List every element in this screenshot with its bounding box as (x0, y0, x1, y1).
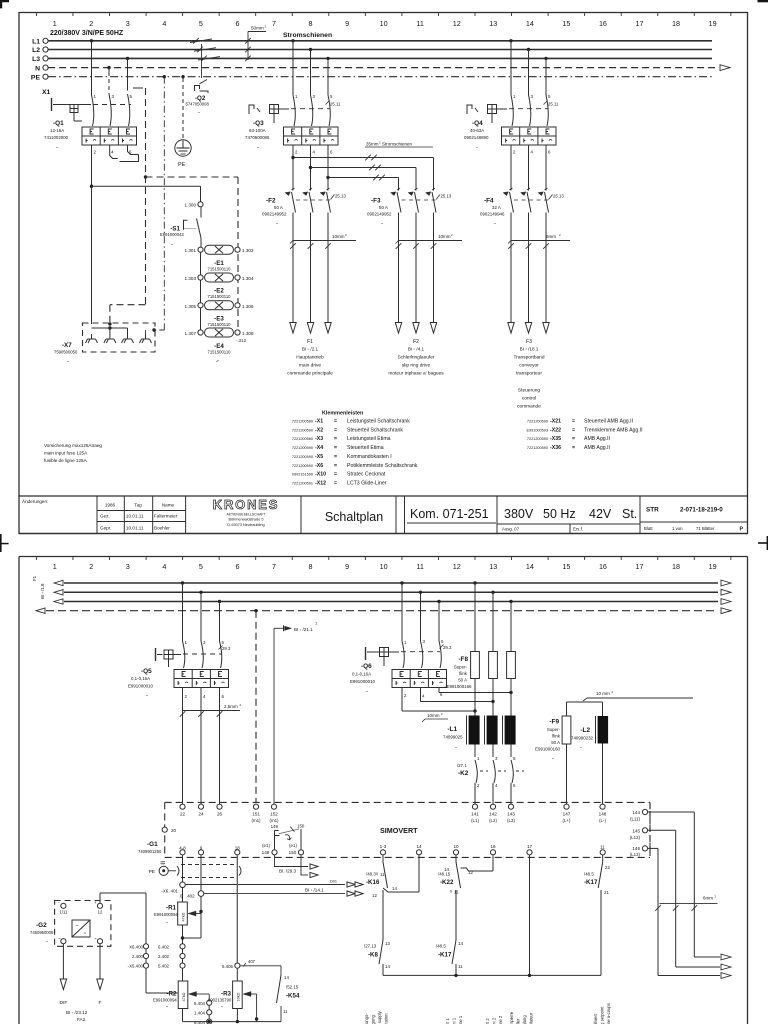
svg-text:(L1): (L1) (471, 818, 479, 823)
G1 top terminals 22 24 26 (180, 804, 223, 816)
svg-text:KRONES: KRONES (213, 497, 279, 512)
svg-text:50mm: 50mm (251, 26, 264, 31)
svg-text:Steuerteil AMB Agg.II: Steuerteil AMB Agg.II (584, 419, 633, 425)
svg-text:148: 148 (599, 812, 607, 817)
svg-text:/52.15: /52.15 (286, 985, 299, 990)
svg-text:Super-: Super- (547, 727, 561, 732)
svg-text:Steuerteil Schaltschrank: Steuerteil Schaltschrank (347, 427, 403, 433)
breaker Q1 (44, 98, 137, 151)
svg-text:-: - (494, 221, 496, 227)
svg-text:Kom. 071-251: Kom. 071-251 (410, 507, 489, 521)
svg-text:(L-): (L-) (599, 818, 606, 823)
svg-text:14: 14 (526, 19, 534, 28)
svg-text:Gepr.: Gepr. (100, 526, 111, 531)
svg-text:-: - (580, 745, 582, 751)
svg-text:147: 147 (563, 812, 571, 817)
bottom rail R2 R3 K54 (183, 1017, 282, 1023)
rail N wire (43, 65, 730, 71)
bus line 4 dashed control (36, 608, 731, 614)
svg-text:BI. /29.3: BI. /29.3 (279, 869, 297, 874)
terminals 151 152 m1 (251, 804, 279, 823)
svg-text:7221200590: 7221200590 (527, 420, 548, 424)
svg-text:sollwert 1: sollwert 1 (445, 1018, 450, 1024)
svg-text:Boehler: Boehler (154, 526, 170, 531)
svg-text:-: - (198, 110, 200, 116)
svg-text:12: 12 (453, 562, 461, 571)
svg-text:29.3: 29.3 (443, 645, 452, 650)
svg-text:/27.1: /27.1 (457, 763, 467, 768)
fuse F8 (444, 581, 515, 715)
svg-text:-: - (171, 242, 173, 248)
svg-text:consigne 1: consigne 1 (458, 1015, 463, 1024)
svg-text:-R2: -R2 (167, 991, 178, 998)
cable 6mm2 marker output (655, 895, 717, 911)
svg-text:50 A: 50 A (379, 205, 388, 210)
svg-text:(L13): (L13) (630, 852, 641, 857)
svg-text:(L12): (L12) (630, 835, 641, 840)
G2 wire to terminal chain (100, 893, 178, 993)
svg-text:3: 3 (126, 19, 130, 28)
svg-text:740990232: 740990232 (571, 736, 594, 741)
svg-text:STR: STR (646, 507, 659, 514)
terminals 147 148 (563, 804, 607, 823)
svg-text:/27.13: /27.13 (364, 944, 377, 949)
svg-text:12-16A: 12-16A (50, 128, 64, 133)
svg-text:149: 149 (271, 824, 279, 829)
svg-text:0902135790: 0902135790 (208, 998, 232, 1003)
svg-text:1.307: 1.307 (185, 331, 197, 336)
svg-text:E991000043: E991000043 (160, 232, 184, 237)
Q6 output links to F8 (402, 688, 513, 713)
svg-text:PE: PE (31, 74, 41, 81)
svg-text:63-100A: 63-100A (249, 128, 266, 133)
svg-text:74099025: 74099025 (443, 735, 463, 740)
Q6 pole wires (400, 581, 452, 668)
svg-text:26: 26 (217, 812, 223, 817)
svg-text:-K17: -K17 (584, 879, 598, 886)
bus line 3 bottom page (54, 599, 731, 605)
dashed drop from N via x145 to X7 (108, 88, 145, 326)
svg-text:DIF: DIF (60, 1000, 68, 1006)
svg-text:Schaltplan: Schaltplan (325, 510, 383, 524)
svg-text:AMB Agg.II: AMB Agg.II (584, 445, 610, 451)
switch 149 150 inside G1 (271, 824, 305, 850)
choke L1 (443, 716, 516, 752)
svg-text:-K2: -K2 (458, 770, 469, 777)
terminal 20 (162, 827, 176, 833)
svg-text:Schleifringlaeufer: Schleifringlaeufer (397, 355, 434, 361)
svg-text:-X4: -X4 (315, 445, 323, 451)
svg-text:=: = (334, 436, 337, 442)
fuse F4 (480, 188, 570, 322)
svg-text:D-93073 Neutraubling: D-93073 Neutraubling (227, 523, 264, 527)
lamp E2 (185, 273, 254, 299)
svg-text:Leistungsteil Schaltschrank: Leistungsteil Schaltschrank (347, 419, 410, 425)
svg-text:8: 8 (309, 562, 313, 571)
svg-text:Stromschienen: Stromschienen (283, 32, 332, 39)
svg-text:-X6: -X6 (315, 463, 323, 469)
svg-text:N: N (35, 65, 40, 72)
svg-text:-: - (146, 693, 148, 699)
svg-text:Änderungen:: Änderungen: (22, 498, 48, 504)
svg-text:-Q3: -Q3 (253, 120, 264, 127)
svg-text:-R3: -R3 (221, 991, 232, 998)
relay contact K8 (364, 940, 390, 975)
svg-text:16: 16 (599, 19, 607, 28)
terminal 6.405 and wire 407 to K54 (222, 959, 281, 975)
svg-text:AMB Agg.II: AMB Agg.II (584, 436, 610, 442)
svg-text:(L2): (L2) (489, 818, 497, 823)
svg-text:-F2: -F2 (266, 198, 276, 205)
svg-text:141: 141 (471, 812, 479, 817)
svg-text:=: = (572, 436, 575, 442)
svg-text:10mm: 10mm (332, 234, 345, 239)
svg-text:/48.15: /48.15 (438, 872, 451, 877)
svg-text:42V: 42V (589, 507, 612, 521)
Klemmenleisten list (292, 411, 418, 487)
rail labels L1 L2 L3 N PE (31, 38, 41, 81)
feeder label F3 Transportband (513, 339, 544, 410)
output terminals 144 145 146 (630, 803, 650, 857)
svg-text:4: 4 (162, 562, 166, 571)
svg-text:25.13: 25.13 (441, 194, 452, 199)
svg-text:1: 1 (53, 562, 57, 571)
svg-text:Hauptantrieb: Hauptantrieb (296, 355, 324, 361)
svg-text:144: 144 (632, 810, 640, 815)
svg-text:0902148890: 0902148890 (464, 135, 489, 140)
terminal labels X6.400 chain (128, 944, 170, 968)
title block frame (19, 496, 748, 534)
svg-text:Blatt: Blatt (644, 526, 653, 531)
svg-text:9: 9 (345, 19, 349, 28)
svg-text:F1: F1 (32, 575, 37, 581)
svg-text:6: 6 (235, 562, 239, 571)
svg-text:7151500110: 7151500110 (208, 267, 232, 272)
svg-text:control: control (522, 396, 536, 402)
svg-text:X1: X1 (42, 89, 51, 96)
G2 output arrows DIF F (60, 944, 104, 1022)
lamp E1 (185, 245, 254, 271)
svg-text:17: 17 (636, 19, 644, 28)
svg-text:=: = (572, 419, 575, 425)
svg-text:(e1): (e1) (289, 843, 297, 848)
svg-text:7151500110: 7151500110 (208, 294, 232, 299)
svg-text:19: 19 (709, 19, 717, 28)
column numbers top page (53, 19, 717, 28)
svg-text:setpoint 1: setpoint 1 (452, 1017, 457, 1024)
choke L2 (571, 716, 608, 804)
svg-text:11: 11 (600, 845, 605, 850)
svg-text:13: 13 (489, 19, 497, 28)
svg-text:7221200590: 7221200590 (292, 446, 313, 450)
svg-text:50 A: 50 A (458, 678, 467, 683)
svg-text:10: 10 (380, 562, 388, 571)
svg-text:10.01.11: 10.01.11 (126, 526, 144, 531)
control bottom rail (383, 974, 601, 977)
title drawing number (644, 507, 744, 533)
svg-text:=: = (334, 472, 337, 478)
lamp chain connecting wire (200, 252, 202, 330)
svg-text:AKTIENGESELLSCHAFT: AKTIENGESELLSCHAFT (226, 513, 265, 517)
svg-text:flink: flink (552, 734, 561, 739)
svg-text:-L1: -L1 (447, 726, 457, 733)
svg-text:50 A: 50 A (551, 740, 560, 745)
svg-text:-Q1: -Q1 (53, 120, 64, 127)
svg-text:0,1-0,16A: 0,1-0,16A (131, 676, 150, 681)
G1 bottom terminals (179, 843, 303, 855)
bus line 2 bottom page (54, 589, 731, 595)
svg-text:Spannungs-: Spannungs- (364, 1013, 369, 1024)
svg-text:47kΩ: 47kΩ (182, 992, 186, 1001)
svg-text:14: 14 (444, 867, 449, 872)
svg-text:F1: F1 (307, 339, 313, 345)
svg-text:380V: 380V (504, 507, 534, 521)
rail L2 wire (43, 47, 712, 52)
svg-text:transporteur: transporteur (516, 371, 542, 377)
svg-text:14: 14 (416, 844, 422, 849)
svg-text:146: 146 (632, 846, 640, 851)
dashed link to lamp box (144, 175, 238, 330)
rail L1 wire (43, 38, 712, 43)
svg-text:Super-: Super- (454, 665, 468, 670)
svg-text:sollwert 2: sollwert 2 (485, 1018, 490, 1024)
Q1 output wires (92, 146, 139, 325)
svg-text:13: 13 (489, 562, 497, 571)
breaker Q4 (464, 105, 556, 152)
svg-text:X6.400: X6.400 (129, 944, 143, 949)
cable 10mm2 marker Q6 (422, 712, 448, 722)
svg-text:1.308: 1.308 (242, 331, 254, 336)
lamp E4 (185, 328, 254, 364)
svg-text:Steuerung: Steuerung (518, 388, 540, 394)
svg-text:1.304: 1.304 (242, 276, 254, 281)
terminal circles 402 chain (180, 944, 185, 981)
svg-text:7221200590: 7221200590 (292, 428, 313, 432)
top page frame (19, 13, 748, 534)
svg-text:setpoint 2: setpoint 2 (492, 1017, 497, 1024)
svg-text:Klemmenleisten: Klemmenleisten (322, 411, 363, 417)
Q5 pole wires (181, 581, 231, 668)
svg-text:/48.5: /48.5 (436, 944, 446, 949)
svg-text:7409901250: 7409901250 (138, 849, 162, 854)
svg-text:F2: F2 (413, 339, 419, 345)
svg-text:40-63A: 40-63A (470, 128, 484, 133)
svg-text:10: 10 (453, 844, 459, 849)
svg-text:0: 0 (450, 890, 452, 894)
svg-text:152: 152 (270, 812, 278, 817)
svg-text:consigne 2: consigne 2 (498, 1015, 503, 1024)
svg-text:fusible de ligne 125A: fusible de ligne 125A (44, 458, 88, 463)
svg-text:P: P (740, 527, 744, 533)
wires 149 150 to arrows BI 29.3 (274, 855, 318, 878)
svg-text:0: 0 (376, 872, 378, 876)
svg-text:-L2: -L2 (580, 727, 590, 734)
note main input fuse (44, 443, 102, 463)
terminals 141 142 143 (471, 804, 515, 823)
svg-text:=: = (572, 445, 575, 451)
title Kom number (407, 507, 496, 523)
svg-text:-Q6: -Q6 (361, 663, 372, 670)
svg-text:-K22: -K22 (440, 879, 454, 886)
svg-text:=: = (334, 445, 337, 451)
svg-text:4: 4 (162, 19, 166, 28)
svg-text:29.3: 29.3 (222, 646, 231, 651)
DC supply G2 dashed box (30, 900, 111, 946)
svg-text:1.305: 1.305 (185, 304, 197, 309)
terminal chain 404 (194, 1000, 212, 1024)
svg-text:slip ring drive: slip ring drive (402, 363, 431, 369)
svg-text:-X2: -X2 (315, 427, 323, 433)
svg-text:7221200590: 7221200590 (527, 437, 548, 441)
feeder arrows F2 motor (395, 323, 436, 334)
svg-text:E991000010: E991000010 (350, 679, 375, 684)
svg-text:PE: PE (149, 869, 155, 875)
svg-text:14: 14 (284, 975, 289, 980)
lamp E3 (185, 301, 254, 327)
svg-text:35mm: 35mm (366, 142, 379, 147)
svg-text:-X21: -X21 (550, 419, 561, 425)
svg-text:16: 16 (599, 562, 607, 571)
svg-text:7411002000: 7411002000 (44, 135, 69, 140)
svg-text:-K54: -K54 (286, 993, 300, 1000)
svg-text:1.303: 1.303 (185, 276, 197, 281)
crop marks (0, 0, 768, 552)
svg-text:-G2: -G2 (36, 922, 47, 929)
Q4 pole wires (509, 39, 559, 126)
svg-text:-F3: -F3 (371, 198, 381, 205)
svg-text:/48.3: /48.3 (366, 872, 376, 877)
potentiometer R1 (154, 887, 203, 946)
svg-text:11: 11 (458, 964, 463, 969)
wire terminal 17 down (529, 855, 531, 975)
svg-text:142: 142 (489, 812, 497, 817)
relay contact K54 (277, 975, 300, 1022)
svg-text:BI ▫ /21.1: BI ▫ /21.1 (294, 627, 313, 632)
svg-text:-X1: -X1 (315, 419, 323, 425)
feeder arrows F3 conveyor (508, 323, 549, 334)
svg-text:50 Hz: 50 Hz (543, 507, 576, 521)
bus line 1 bottom page (54, 580, 731, 586)
label 220/380V 3/N/PE 50HZ (50, 30, 124, 37)
svg-text:1/11: 1/11 (59, 910, 68, 915)
svg-text:10kΩ: 10kΩ (237, 992, 241, 1001)
svg-text:2.402: 2.402 (158, 954, 170, 959)
relay contact K17 (436, 940, 463, 975)
svg-text:15: 15 (562, 562, 570, 571)
svg-text:18: 18 (672, 562, 680, 571)
KRONES logo (213, 497, 279, 527)
svg-text:-F9: -F9 (549, 719, 559, 726)
svg-text:6.405: 6.405 (222, 964, 234, 969)
svg-text:145: 145 (632, 828, 640, 833)
svg-text:1 von: 1 von (672, 526, 683, 531)
svg-text:1.301: 1.301 (185, 248, 197, 253)
svg-text:-: - (216, 359, 218, 365)
svg-text:407: 407 (248, 959, 256, 964)
breaker Q6 (350, 647, 447, 695)
svg-text:11: 11 (416, 19, 423, 28)
terminal block X7 (54, 323, 218, 365)
title voltage (502, 507, 637, 532)
svg-text:-: - (476, 145, 478, 151)
svg-text:12: 12 (372, 893, 377, 898)
svg-text:7221200590: 7221200590 (527, 446, 548, 450)
svg-text:10.01.11: 10.01.11 (126, 514, 144, 519)
L1 output wires (475, 745, 511, 758)
svg-text:BI ▫ /18.1: BI ▫ /18.1 (520, 347, 539, 352)
converter box dashed outline (165, 802, 650, 857)
svg-text:FA2.: FA2. (77, 1017, 86, 1022)
svg-text:verrouilateur: verrouilateur (529, 1012, 534, 1024)
svg-text:1.404: 1.404 (194, 1011, 206, 1016)
svg-text:24: 24 (198, 812, 204, 817)
svg-text:(L11): (L11) (630, 817, 640, 822)
svg-text:=: = (334, 427, 337, 433)
potentiometer R2 (153, 981, 209, 1022)
svg-text:-: - (381, 221, 383, 227)
svg-text:-K8: -K8 (368, 952, 379, 959)
relay contact K16 (366, 855, 419, 940)
svg-text:15: 15 (562, 19, 570, 28)
svg-text:Leistungsteil Etima: Leistungsteil Etima (347, 436, 391, 442)
svg-text:-F8: -F8 (458, 656, 468, 663)
bottom rotated legend texts (364, 1003, 611, 1024)
svg-text:-K16: -K16 (366, 879, 380, 886)
svg-text:(e1): (e1) (262, 843, 270, 848)
svg-text:0902149946: 0902149946 (480, 212, 505, 217)
svg-text:10 mm: 10 mm (596, 691, 610, 696)
svg-text:Ausg. 07: Ausg. 07 (502, 527, 520, 532)
svg-text:14: 14 (385, 964, 390, 969)
svg-text:-K17: -K17 (438, 952, 452, 959)
svg-text:149: 149 (262, 850, 270, 855)
svg-text:12: 12 (453, 19, 461, 28)
column numbers bottom page (53, 562, 717, 571)
svg-text:7151500110: 7151500110 (208, 350, 232, 355)
svg-text:/48.5: /48.5 (584, 872, 594, 877)
svg-text:13: 13 (385, 941, 390, 946)
svg-text:-: - (455, 745, 457, 751)
svg-text:-: - (257, 145, 259, 151)
svg-text:L3: L3 (32, 56, 40, 63)
title Schaltplan (325, 510, 383, 524)
label 35mm2 Stromschienen (365, 141, 433, 148)
dashed drop to SIMOVERT terminal 151 (254, 609, 257, 803)
svg-text:7221200580: 7221200580 (292, 420, 313, 424)
svg-text:11: 11 (416, 562, 423, 571)
svg-text:jogging setpoint: jogging setpoint (600, 1006, 605, 1024)
svg-text:7151500110: 7151500110 (208, 322, 232, 327)
svg-text:1: 1 (53, 19, 57, 28)
svg-text:~: ~ (94, 936, 97, 941)
svg-text:47kΩ: 47kΩ (182, 912, 186, 921)
svg-text:-R1: -R1 (166, 905, 177, 912)
Klemmenleisten list right (526, 419, 642, 452)
svg-text:2: 2 (89, 562, 93, 571)
svg-text:14: 14 (458, 941, 463, 946)
svg-text:8: 8 (309, 19, 313, 28)
svg-text:7221200590: 7221200590 (292, 464, 313, 468)
feeder label F1 Hauptantrieb (287, 339, 333, 377)
svg-text:17: 17 (636, 562, 644, 571)
svg-text:14: 14 (526, 562, 534, 571)
svg-text:BI ▫ /23.12: BI ▫ /23.12 (66, 1010, 88, 1015)
svg-text:=: = (334, 463, 337, 469)
svg-text:25.11: 25.11 (330, 102, 341, 107)
svg-text:-: - (67, 359, 69, 365)
feeder arrows F1 motor (290, 323, 331, 334)
svg-text:E991000593: E991000593 (526, 428, 548, 432)
